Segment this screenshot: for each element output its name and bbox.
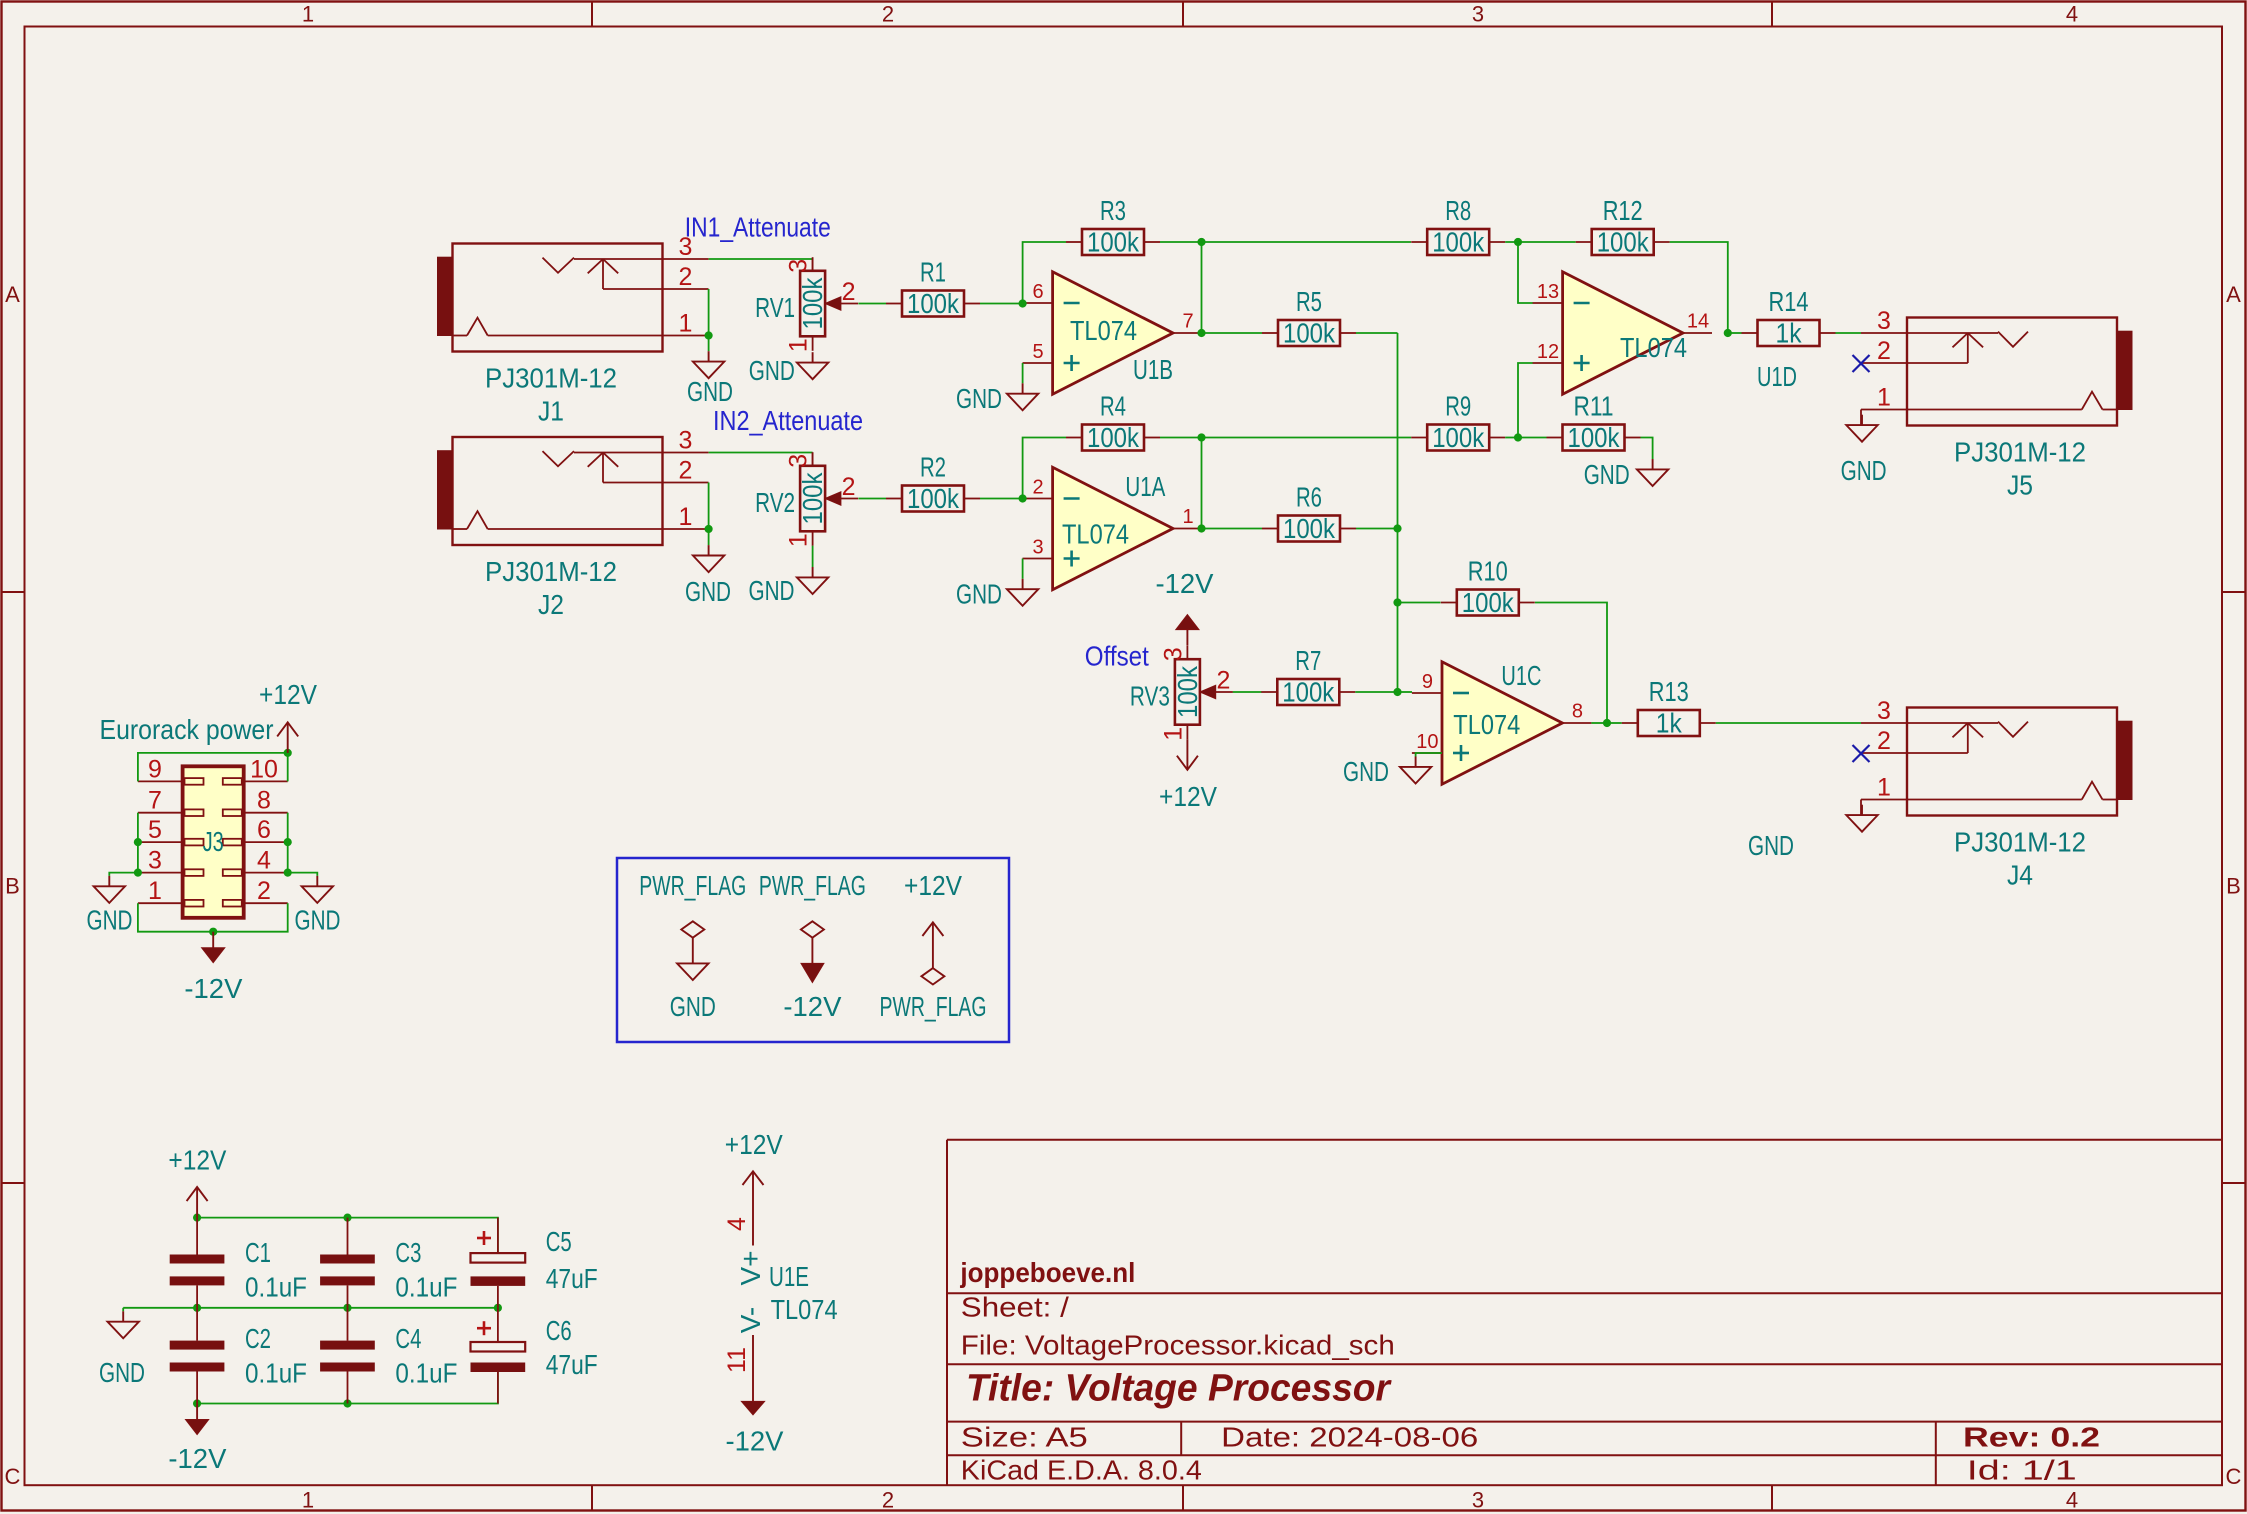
svg-text:100k: 100k [1597,227,1650,258]
svg-text:R5: R5 [1296,286,1322,317]
svg-text:1: 1 [302,2,314,27]
svg-text:PWR_FLAG: PWR_FLAG [759,870,866,901]
svg-text:B: B [2226,874,2241,899]
svg-text:File: VoltageProcessor.kicad_s: File: VoltageProcessor.kicad_sch [961,1330,1395,1361]
svg-text:13: 13 [1537,281,1559,303]
svg-text:-12V: -12V [783,991,841,1022]
svg-text:GND: GND [956,383,1002,414]
svg-text:TL074: TL074 [1453,709,1520,740]
svg-text:A: A [5,282,20,307]
svg-text:3: 3 [785,259,813,273]
svg-text:4: 4 [2066,2,2078,27]
svg-text:Title: Voltage Processor: Title: Voltage Processor [966,1367,1392,1409]
svg-text:+12V: +12V [259,679,317,710]
svg-text:3: 3 [679,427,693,455]
svg-text:9: 9 [1422,671,1433,693]
svg-text:TL074: TL074 [1070,315,1137,346]
svg-text:R10: R10 [1468,556,1508,587]
svg-text:6: 6 [1032,281,1043,303]
svg-text:GND: GND [749,355,795,386]
svg-text:2: 2 [1032,477,1043,499]
svg-text:J1: J1 [538,396,564,427]
svg-text:4: 4 [257,847,271,875]
svg-text:R3: R3 [1100,195,1126,226]
svg-text:R1: R1 [920,257,946,288]
svg-text:1: 1 [1182,506,1193,528]
svg-text:GND: GND [1584,459,1630,490]
svg-text:J2: J2 [538,589,564,620]
svg-text:1: 1 [1877,774,1891,802]
svg-text:Sheet: /: Sheet: / [961,1291,1069,1322]
svg-text:2: 2 [842,278,856,306]
svg-text:GND: GND [87,905,133,936]
svg-text:100k: 100k [907,483,960,514]
svg-text:100k: 100k [797,472,828,525]
svg-text:47uF: 47uF [546,1263,598,1294]
svg-text:U1C: U1C [1501,660,1541,691]
svg-text:GND: GND [1748,830,1794,861]
svg-text:9: 9 [148,755,162,783]
svg-text:IN1_Attenuate: IN1_Attenuate [685,211,831,242]
svg-text:8: 8 [1572,701,1583,723]
svg-text:KiCad E.D.A. 8.0.4: KiCad E.D.A. 8.0.4 [961,1455,1202,1486]
svg-text:100k: 100k [797,277,828,330]
svg-text:1: 1 [302,1488,314,1513]
svg-text:0.1uF: 0.1uF [395,1358,457,1389]
svg-text:3: 3 [1032,537,1043,559]
svg-text:PJ301M-12: PJ301M-12 [485,556,617,587]
svg-text:TL074: TL074 [771,1294,838,1325]
svg-text:R11: R11 [1574,391,1614,422]
svg-text:B: B [5,874,20,899]
svg-text:C: C [5,1464,21,1489]
svg-text:2: 2 [1216,667,1230,695]
svg-text:+12V: +12V [725,1129,783,1160]
svg-text:0.1uF: 0.1uF [245,1272,307,1303]
svg-text:R2: R2 [920,452,946,483]
svg-text:PJ301M-12: PJ301M-12 [1954,826,2086,857]
svg-text:IN2_Attenuate: IN2_Attenuate [713,405,863,436]
svg-text:C5: C5 [546,1226,572,1257]
svg-text:100k: 100k [1432,422,1485,453]
svg-text:6: 6 [257,816,271,844]
svg-text:U1A: U1A [1125,471,1165,502]
svg-text:U1B: U1B [1133,354,1173,385]
svg-text:PWR_FLAG: PWR_FLAG [639,870,746,901]
svg-text:3: 3 [1877,307,1891,335]
svg-text:PJ301M-12: PJ301M-12 [485,362,617,393]
svg-text:R13: R13 [1649,676,1689,707]
svg-text:1: 1 [679,310,693,338]
svg-text:GND: GND [295,905,341,936]
svg-text:+12V: +12V [168,1145,226,1176]
svg-text:1: 1 [148,877,162,905]
svg-text:GND: GND [687,376,733,407]
svg-text:V-: V- [735,1307,766,1333]
svg-text:GND: GND [1841,455,1887,486]
svg-text:3: 3 [148,847,162,875]
svg-text:4: 4 [723,1217,751,1231]
svg-text:C2: C2 [245,1323,271,1354]
svg-text:J4: J4 [2007,860,2033,891]
svg-text:-12V: -12V [1156,568,1214,599]
svg-text:J3: J3 [203,826,224,857]
svg-text:11: 11 [723,1347,751,1373]
svg-text:RV1: RV1 [755,292,795,323]
svg-text:V+: V+ [735,1250,766,1285]
svg-text:2: 2 [679,457,693,485]
svg-text:+12V: +12V [904,870,962,901]
svg-text:-12V: -12V [184,973,242,1004]
svg-text:1: 1 [679,503,693,531]
svg-text:GND: GND [956,579,1002,610]
svg-text:100k: 100k [1568,422,1621,453]
svg-text:2: 2 [842,473,856,501]
svg-text:J5: J5 [2007,470,2033,501]
svg-text:10: 10 [1416,731,1438,753]
svg-text:Id: 1/1: Id: 1/1 [1967,1455,2077,1486]
svg-text:100k: 100k [1172,665,1203,718]
svg-text:Eurorack power: Eurorack power [100,714,274,745]
svg-text:U1D: U1D [1757,361,1797,392]
svg-text:1: 1 [785,338,813,352]
svg-text:C: C [2226,1464,2242,1489]
svg-text:2: 2 [1877,727,1891,755]
svg-text:R8: R8 [1445,195,1471,226]
svg-text:GND: GND [670,991,716,1022]
svg-text:8: 8 [257,787,271,815]
svg-text:7: 7 [148,787,162,815]
svg-text:RV3: RV3 [1130,681,1170,712]
svg-text:47uF: 47uF [546,1349,598,1380]
svg-text:1k: 1k [1776,318,1803,349]
svg-text:100k: 100k [1087,422,1140,453]
svg-text:Offset: Offset [1085,641,1149,672]
svg-text:2: 2 [882,1488,894,1513]
svg-text:100k: 100k [1282,677,1335,708]
svg-text:C4: C4 [395,1323,421,1354]
svg-text:100k: 100k [1462,587,1515,618]
svg-text:R14: R14 [1769,286,1809,317]
svg-text:R12: R12 [1603,195,1643,226]
svg-text:R7: R7 [1295,645,1321,676]
svg-text:U1E: U1E [769,1261,809,1292]
svg-text:GND: GND [749,575,795,606]
svg-text:100k: 100k [907,288,960,319]
svg-text:3: 3 [1877,697,1891,725]
svg-text:2: 2 [1877,337,1891,365]
svg-text:2: 2 [679,263,693,291]
svg-text:5: 5 [148,816,162,844]
svg-text:C1: C1 [245,1237,271,1268]
svg-text:100k: 100k [1432,227,1485,258]
svg-text:R6: R6 [1296,482,1322,513]
svg-text:-12V: -12V [168,1443,226,1474]
svg-text:0.1uF: 0.1uF [395,1272,457,1303]
svg-text:1: 1 [785,533,813,547]
svg-text:+12V: +12V [1159,781,1217,812]
svg-text:2: 2 [882,2,894,27]
svg-text:5: 5 [1032,341,1043,363]
svg-text:-12V: -12V [726,1426,784,1457]
svg-text:Date: 2024-08-06: Date: 2024-08-06 [1221,1422,1478,1453]
svg-text:3: 3 [785,454,813,468]
svg-text:TL074: TL074 [1062,518,1129,549]
svg-text:1: 1 [1877,384,1891,412]
svg-text:10: 10 [250,755,278,783]
svg-text:100k: 100k [1087,227,1140,258]
svg-text:12: 12 [1537,341,1559,363]
svg-text:GND: GND [99,1357,145,1388]
svg-text:GND: GND [685,576,731,607]
svg-text:joppeboeve.nl: joppeboeve.nl [959,1257,1135,1288]
svg-text:C6: C6 [546,1315,572,1346]
svg-text:2: 2 [257,877,271,905]
svg-text:PWR_FLAG: PWR_FLAG [880,991,987,1022]
svg-text:Rev: 0.2: Rev: 0.2 [1963,1422,2100,1453]
svg-text:3: 3 [1159,647,1187,661]
svg-text:GND: GND [1343,756,1389,787]
svg-text:1k: 1k [1656,708,1683,739]
svg-text:3: 3 [1472,2,1484,27]
svg-text:TL074: TL074 [1620,332,1687,363]
svg-text:R9: R9 [1445,391,1471,422]
svg-text:1: 1 [1159,727,1187,741]
svg-text:100k: 100k [1283,318,1336,349]
svg-text:7: 7 [1182,311,1193,333]
svg-text:Size: A5: Size: A5 [961,1422,1088,1453]
svg-text:PJ301M-12: PJ301M-12 [1954,436,2086,467]
svg-text:0.1uF: 0.1uF [245,1358,307,1389]
svg-text:A: A [2226,282,2241,307]
svg-text:100k: 100k [1283,513,1336,544]
svg-text:C3: C3 [395,1237,421,1268]
svg-text:R4: R4 [1100,391,1126,422]
svg-text:RV2: RV2 [755,487,795,518]
svg-text:4: 4 [2066,1488,2078,1513]
svg-text:14: 14 [1687,311,1709,333]
svg-text:3: 3 [1472,1488,1484,1513]
